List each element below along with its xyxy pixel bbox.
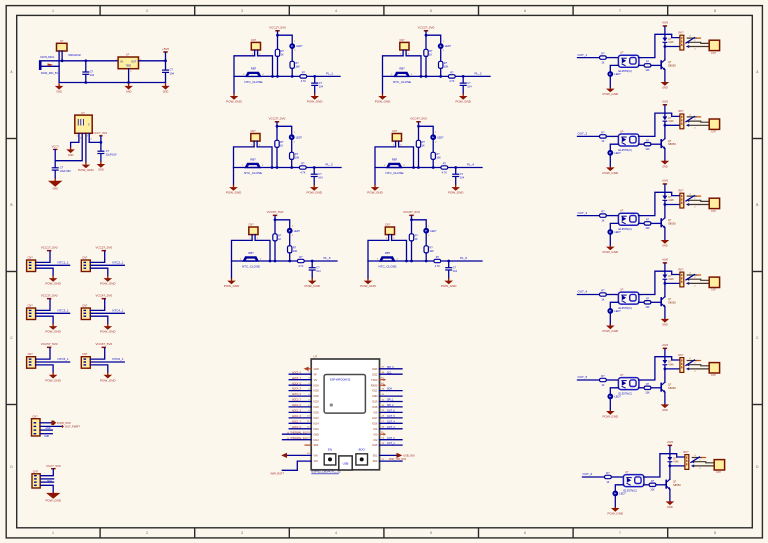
wire cn14 pin3 bbox=[40, 481, 53, 483]
svg-text:ADC5_7: ADC5_7 bbox=[292, 377, 302, 380]
svg-text:EN: EN bbox=[328, 448, 332, 452]
wire esp left pin 7 bbox=[289, 399, 319, 404]
connector CN14 aux header bbox=[32, 470, 40, 488]
svg-text:6: 6 bbox=[524, 9, 526, 13]
resistor R6c bbox=[434, 256, 441, 268]
resistor R1c bbox=[300, 72, 307, 84]
relay contact NO bbox=[686, 124, 709, 130]
led LED6r bbox=[612, 491, 626, 497]
ESP32 shield module bbox=[324, 375, 365, 414]
svg-text:8: 8 bbox=[714, 531, 716, 535]
node cap junction bbox=[447, 260, 450, 263]
optocoupler U4 bbox=[616, 288, 643, 311]
led LED4r bbox=[607, 308, 621, 314]
wire input bbox=[578, 215, 600, 217]
connector CN5 out bbox=[709, 363, 719, 378]
svg-text:LED?: LED? bbox=[614, 73, 621, 76]
ground sensor right bbox=[448, 185, 464, 195]
wire base bbox=[644, 484, 650, 486]
svg-text:IO32: IO32 bbox=[314, 395, 320, 398]
regulator U1 bbox=[115, 53, 142, 73]
svg-text:VCC3?_5V0: VCC3?_5V0 bbox=[269, 117, 286, 121]
wire header pin3 bbox=[90, 268, 108, 275]
node cap junction bbox=[313, 166, 316, 169]
wire to opto bbox=[606, 294, 618, 296]
button EN bbox=[324, 448, 336, 465]
svg-text:POW_GND: POW_GND bbox=[45, 378, 61, 382]
wire coil bottom bbox=[665, 204, 680, 206]
svg-text:POW_GND: POW_GND bbox=[603, 250, 619, 254]
svg-text:+5V0: +5V0 bbox=[662, 100, 669, 104]
svg-text:ADC2_0: ADC2_0 bbox=[292, 404, 302, 407]
ground transistor bbox=[661, 82, 670, 90]
led LED3r bbox=[607, 229, 621, 235]
wire opto cathode bbox=[610, 144, 618, 149]
led LED5r bbox=[607, 394, 621, 400]
relay contact COM bbox=[686, 198, 709, 202]
wire vcc stem bbox=[165, 53, 167, 61]
wire U1 gnd pin bbox=[128, 69, 130, 83]
wire led to gnd bbox=[609, 77, 611, 88]
power +5V0 bbox=[162, 47, 169, 53]
svg-text:WIFI_RST?: WIFI_RST? bbox=[271, 471, 285, 475]
wire header pin1 bbox=[36, 299, 50, 310]
wire coil bottom bbox=[665, 282, 680, 284]
svg-text:CN?: CN? bbox=[711, 374, 716, 377]
wire header pin2 bbox=[90, 357, 124, 362]
relay contact NO bbox=[686, 282, 709, 288]
wire led to gnd bbox=[609, 314, 611, 325]
svg-text:U?: U? bbox=[81, 111, 85, 115]
resistor R2c bbox=[448, 72, 455, 84]
node R-main junction bbox=[274, 260, 277, 263]
wire vcc branch bbox=[277, 126, 292, 134]
svg-text:POW_GND: POW_GND bbox=[375, 100, 391, 104]
svg-text:RB?: RB? bbox=[248, 251, 254, 255]
node vcc branch junction bbox=[410, 218, 413, 221]
wire esp left pin 12 bbox=[289, 426, 319, 431]
svg-text:GND: GND bbox=[662, 87, 668, 90]
svg-text:104: 104 bbox=[318, 177, 323, 180]
node U1 gnd junction bbox=[127, 81, 130, 84]
svg-text:IO27: IO27 bbox=[314, 417, 320, 420]
svg-text:RB?: RB? bbox=[392, 158, 398, 162]
port POW_5V0 bbox=[51, 421, 71, 426]
sensor probe RB4 bbox=[384, 158, 406, 175]
svg-text:VCC1?_5V0: VCC1?_5V0 bbox=[41, 246, 58, 250]
wire emitter to gnd bbox=[664, 149, 666, 161]
node coil bottom bbox=[664, 203, 667, 206]
power +5V relay bbox=[662, 258, 669, 264]
resistor R6b bbox=[424, 246, 434, 253]
svg-text:GND: GND bbox=[68, 154, 74, 157]
svg-text:CN?: CN? bbox=[385, 224, 391, 227]
relay blade bbox=[686, 116, 695, 121]
wire top rail bbox=[62, 60, 118, 62]
svg-text:1K: 1K bbox=[606, 481, 609, 484]
ground header bbox=[45, 324, 61, 334]
led LED6 bbox=[423, 225, 437, 236]
wire diode to node bbox=[664, 43, 666, 60]
wire vcc to R bbox=[274, 216, 276, 234]
node vcc branch junction bbox=[276, 125, 279, 128]
wire to opto bbox=[606, 57, 618, 59]
svg-text:POW_GND: POW_GND bbox=[367, 191, 383, 195]
svg-text:LED?: LED? bbox=[614, 152, 621, 155]
wire opto cathode bbox=[610, 65, 618, 70]
resistor R3b2 bbox=[644, 219, 651, 231]
capacitor C2 bbox=[162, 61, 174, 83]
power +5V relay bbox=[662, 179, 669, 185]
node R2-main junction bbox=[290, 166, 293, 169]
wire emitter to gnd bbox=[664, 392, 666, 404]
svg-text:10K: 10K bbox=[645, 69, 650, 72]
svg-text:1: 1 bbox=[52, 531, 54, 535]
power header vcc bbox=[95, 294, 112, 300]
wire main net bbox=[383, 75, 491, 77]
svg-text:NTC_CLOSE: NTC_CLOSE bbox=[242, 264, 260, 268]
svg-text:VCC4?_5V0: VCC4?_5V0 bbox=[95, 294, 112, 298]
wire esp left pin 6 bbox=[289, 393, 319, 398]
connector CN3 header bbox=[27, 304, 36, 319]
resistor R3in bbox=[600, 211, 607, 223]
svg-text:4.7K: 4.7K bbox=[449, 80, 454, 83]
svg-text:1K: 1K bbox=[601, 298, 604, 301]
svg-text:CN?: CN? bbox=[33, 415, 39, 418]
port POW_EN left bbox=[281, 453, 318, 458]
svg-text:GND: GND bbox=[314, 433, 320, 436]
wire header pin3 bbox=[90, 316, 108, 323]
svg-text:POW_GND: POW_GND bbox=[45, 282, 61, 286]
relay blade bbox=[686, 38, 695, 43]
svg-text:POW_GND: POW_GND bbox=[603, 171, 619, 175]
wire vcc branch bbox=[412, 220, 427, 228]
pin 1 left stub bbox=[304, 367, 319, 371]
wire U2 pin1 bbox=[71, 133, 79, 147]
wire esp left pin 2 bbox=[289, 371, 317, 376]
svg-text:RK?: RK? bbox=[679, 110, 684, 113]
svg-text:VCC2?_5V0: VCC2?_5V0 bbox=[418, 26, 435, 30]
svg-text:SD1: SD1 bbox=[373, 455, 378, 458]
wire esp right pin 30 bbox=[372, 404, 402, 409]
svg-text:VCC?_3V3: VCC?_3V3 bbox=[93, 131, 107, 135]
pin 35 right stub bbox=[371, 378, 386, 382]
sensor probe RB5 bbox=[240, 251, 262, 268]
relay contact COM bbox=[686, 40, 709, 44]
wire S1 pin2 to rail bbox=[61, 51, 63, 61]
wire R to main bbox=[418, 148, 420, 168]
svg-text:PL_5: PL_5 bbox=[324, 256, 331, 260]
relay RK1 coil bbox=[679, 31, 684, 50]
ground sensor right bbox=[441, 278, 457, 288]
wire vcc to R bbox=[425, 31, 427, 49]
svg-text:U?: U? bbox=[126, 53, 130, 57]
svg-text:IO35: IO35 bbox=[314, 390, 320, 393]
connector J1 DC input bbox=[39, 55, 58, 75]
connector CN4 out bbox=[709, 277, 719, 292]
resistor R2in bbox=[600, 132, 607, 144]
regulator U2 AMS1117 bbox=[75, 111, 92, 134]
svg-text:B: B bbox=[10, 203, 12, 207]
node R2-main junction bbox=[291, 75, 294, 78]
svg-text:VCC?_5V0: VCC?_5V0 bbox=[46, 464, 61, 468]
resistor R1a bbox=[275, 49, 284, 56]
svg-text:ADC0_0: ADC0_0 bbox=[292, 426, 302, 429]
wire to opto bbox=[611, 476, 623, 478]
svg-text:VCC3?_5V0: VCC3?_5V0 bbox=[41, 294, 58, 298]
connector CN1 header bbox=[27, 256, 36, 271]
svg-text:POW_GND: POW_GND bbox=[306, 191, 322, 195]
node loop-main junction bbox=[412, 166, 415, 169]
svg-text:4148: 4148 bbox=[668, 364, 674, 366]
svg-text:5: 5 bbox=[430, 9, 432, 13]
relay contact NO bbox=[686, 45, 709, 51]
node R2-main junction bbox=[432, 166, 435, 169]
svg-text:RK?: RK? bbox=[679, 189, 684, 192]
wire cn13 pin4 bbox=[40, 434, 52, 438]
ground opto led bbox=[603, 410, 619, 419]
svg-text:104: 104 bbox=[90, 73, 95, 77]
power header vcc bbox=[41, 342, 58, 348]
svg-text:VN: VN bbox=[314, 379, 318, 382]
wire base 2 bbox=[651, 387, 661, 389]
svg-text:ESP-WROOM-32: ESP-WROOM-32 bbox=[330, 378, 351, 382]
svg-text:104: 104 bbox=[170, 71, 175, 75]
svg-text:A_THERMAL_IN1: A_THERMAL_IN1 bbox=[287, 431, 307, 434]
power cn14 vcc bbox=[46, 464, 61, 470]
wire opto collector bbox=[639, 113, 665, 136]
wire vcc stem relay bbox=[664, 105, 666, 116]
svg-text:GND: GND bbox=[98, 169, 104, 172]
resistor R4in bbox=[600, 290, 607, 302]
svg-text:PL_3: PL_3 bbox=[326, 163, 333, 167]
sensor probe RB3 bbox=[242, 158, 264, 175]
ground sensor right bbox=[304, 278, 320, 288]
ground transistor bbox=[661, 161, 670, 169]
polarity arrow bbox=[48, 63, 54, 66]
wire coil top bbox=[665, 357, 680, 360]
sensor probe RB6 bbox=[377, 251, 399, 268]
node R-main junction bbox=[276, 75, 279, 78]
svg-text:GND: GND bbox=[372, 395, 378, 398]
svg-text:CN?: CN? bbox=[399, 39, 405, 42]
svg-text:1K: 1K bbox=[422, 145, 425, 148]
power VCC small bbox=[52, 145, 60, 150]
node R-main junction bbox=[417, 166, 420, 169]
capacitor C4 bbox=[97, 150, 116, 162]
node vcc branch junction bbox=[274, 218, 277, 221]
relay contact NC bbox=[687, 358, 700, 361]
ground transistor bbox=[666, 501, 675, 509]
svg-text:VP: VP bbox=[314, 373, 318, 376]
ground under C3 bbox=[48, 178, 62, 190]
svg-text:OUT_3: OUT_3 bbox=[578, 211, 588, 215]
led LED1r bbox=[607, 71, 621, 77]
svg-text:GND: GND bbox=[163, 91, 169, 94]
wire loop left bbox=[368, 240, 389, 278]
wire vcc branch bbox=[426, 35, 441, 43]
diode D2 bbox=[663, 116, 675, 122]
svg-text:RK?: RK? bbox=[684, 451, 689, 454]
svg-text:IO0: IO0 bbox=[373, 433, 378, 436]
wire bottom rail bbox=[59, 82, 165, 84]
svg-text:OUT_6: OUT_6 bbox=[583, 472, 593, 476]
wire led to R bbox=[291, 49, 293, 61]
relay blade bbox=[686, 275, 695, 280]
svg-text:10K: 10K bbox=[645, 227, 650, 230]
svg-text:POW_GND: POW_GND bbox=[304, 284, 320, 288]
wire opto cathode bbox=[610, 388, 618, 393]
relay contact NC bbox=[692, 455, 705, 458]
wire loop left bbox=[234, 147, 255, 185]
wire WIFI_RST bbox=[271, 460, 319, 475]
svg-text:GND: GND bbox=[314, 368, 320, 371]
svg-text:104: 104 bbox=[460, 177, 465, 180]
relay blade bbox=[686, 360, 695, 365]
wire header pin1 bbox=[90, 251, 104, 262]
wire coil bottom bbox=[665, 124, 680, 126]
node cap junction bbox=[454, 166, 457, 169]
svg-text:1K: 1K bbox=[601, 61, 604, 64]
wire header pin1 bbox=[36, 251, 50, 262]
connector CN2 header bbox=[81, 256, 90, 271]
resistor R5in bbox=[600, 375, 607, 387]
svg-text:10K: 10K bbox=[645, 306, 650, 309]
node R-main junction bbox=[410, 260, 413, 263]
wire loop left bbox=[383, 56, 404, 94]
svg-text:CN?: CN? bbox=[251, 39, 257, 42]
ground under input bbox=[55, 83, 64, 93]
wire cn14 pin2 bbox=[40, 479, 53, 483]
svg-text:PL_2: PL_2 bbox=[475, 72, 482, 76]
wire header pin3 bbox=[36, 365, 54, 372]
relay contact NC bbox=[687, 36, 700, 39]
svg-text:8: 8 bbox=[714, 9, 716, 13]
capacitor C4 bbox=[452, 168, 464, 185]
transistor Q6 bbox=[666, 479, 681, 489]
svg-text:22uF/16V: 22uF/16V bbox=[60, 170, 71, 173]
svg-text:+5V0: +5V0 bbox=[662, 343, 669, 347]
svg-text:VCC1?_5V0: VCC1?_5V0 bbox=[269, 26, 286, 30]
wire U2 pin4 bbox=[89, 133, 101, 142]
svg-text:OUT_4: OUT_4 bbox=[387, 420, 395, 423]
wire U2 pin2 bbox=[55, 133, 82, 160]
connector CN1 water sensor bbox=[251, 39, 261, 50]
svg-text:S8050: S8050 bbox=[668, 300, 676, 304]
wire esp right pin 36 bbox=[372, 371, 402, 376]
svg-text:POW_5V0: POW_5V0 bbox=[57, 421, 71, 425]
svg-text:10K: 10K bbox=[650, 488, 655, 491]
led LED4 bbox=[430, 132, 444, 143]
wire opto cathode bbox=[610, 302, 618, 307]
svg-text:1K: 1K bbox=[429, 53, 432, 56]
svg-text:LED?: LED? bbox=[294, 230, 301, 233]
wire base bbox=[639, 143, 645, 145]
svg-text:+5V0: +5V0 bbox=[662, 179, 669, 183]
ground sensor left bbox=[224, 278, 240, 288]
wire base 2 bbox=[656, 484, 666, 486]
wire input bbox=[578, 135, 600, 137]
wire led to R bbox=[425, 234, 427, 246]
svg-text:ADC1_7: ADC1_7 bbox=[292, 420, 302, 423]
diode D1 bbox=[663, 38, 675, 44]
wire loop left bbox=[232, 240, 253, 278]
relay contact NO bbox=[691, 464, 714, 470]
svg-text:SPI_1: SPI_1 bbox=[387, 399, 394, 402]
wire coil bottom bbox=[670, 465, 685, 467]
wire esp right pin 21 bbox=[373, 458, 407, 463]
wire vcc stem relay bbox=[664, 27, 666, 38]
resistor R4c bbox=[441, 163, 448, 175]
wire led to R bbox=[291, 140, 293, 152]
wire esp left pin 5 bbox=[289, 388, 319, 393]
svg-text:VCC4?_5V0: VCC4?_5V0 bbox=[410, 117, 427, 121]
wire CN4 pins bbox=[395, 141, 397, 147]
svg-text:SD2: SD2 bbox=[314, 444, 319, 447]
ground under C2 bbox=[161, 83, 170, 93]
node coil bottom bbox=[664, 124, 667, 127]
power header vcc bbox=[95, 342, 112, 348]
power +5V relay bbox=[662, 21, 669, 27]
wire vcc branch bbox=[278, 35, 293, 43]
power NTC vcc bbox=[410, 117, 427, 123]
node cap junction bbox=[462, 75, 465, 78]
ic U3 ESP32 body bbox=[311, 359, 379, 470]
svg-text:NTC1_1: NTC1_1 bbox=[58, 260, 70, 264]
wire opto cathode bbox=[610, 223, 618, 228]
node coil bottom bbox=[669, 465, 672, 468]
svg-text:7805: 7805 bbox=[126, 65, 132, 68]
capacitor C1 bbox=[311, 76, 323, 93]
wire 3v3 bar stem bbox=[100, 137, 102, 151]
node coil bottom bbox=[664, 45, 667, 48]
wire R to main bbox=[425, 56, 427, 76]
wire loop right bbox=[255, 240, 270, 261]
wire header pin3 bbox=[90, 365, 108, 372]
svg-text:NTC_CLOSE: NTC_CLOSE bbox=[378, 264, 396, 268]
svg-text:LED?: LED? bbox=[296, 136, 303, 139]
ground header bbox=[100, 324, 116, 334]
connector CN5 header bbox=[27, 353, 36, 368]
svg-text:OUT_PWR?: OUT_PWR? bbox=[65, 425, 80, 429]
wire R to main bbox=[411, 241, 413, 261]
wire esp right pin 28 bbox=[372, 415, 402, 420]
wire led to R bbox=[440, 49, 442, 61]
wire to opto bbox=[606, 215, 618, 217]
svg-text:4.7K: 4.7K bbox=[301, 80, 306, 83]
wire CN5 pins bbox=[251, 235, 253, 241]
svg-text:MSK12C02: MSK12C02 bbox=[69, 54, 82, 57]
wire header pin1 bbox=[36, 348, 50, 359]
led LED2r bbox=[607, 150, 621, 156]
node out junction bbox=[164, 59, 167, 62]
svg-text:CN?: CN? bbox=[392, 130, 398, 133]
svg-text:6: 6 bbox=[524, 531, 526, 535]
svg-text:ADC1_6: ADC1_6 bbox=[292, 415, 302, 418]
svg-text:IO16: IO16 bbox=[372, 422, 378, 425]
wire J1 pin1 to rail bbox=[42, 60, 63, 62]
svg-text:U?: U? bbox=[620, 373, 624, 377]
wire R to main bbox=[277, 56, 279, 76]
wire esp right pin 31 bbox=[372, 399, 402, 404]
svg-text:1: 1 bbox=[52, 9, 54, 13]
svg-text:S8050: S8050 bbox=[668, 63, 676, 67]
wire esp left pin 10 bbox=[289, 415, 319, 420]
svg-text:POW_GND: POW_GND bbox=[100, 378, 116, 382]
ground U2 pin3 bbox=[78, 162, 94, 172]
svg-text:POW_GND: POW_GND bbox=[100, 330, 116, 334]
wire opto collector bbox=[644, 454, 670, 477]
